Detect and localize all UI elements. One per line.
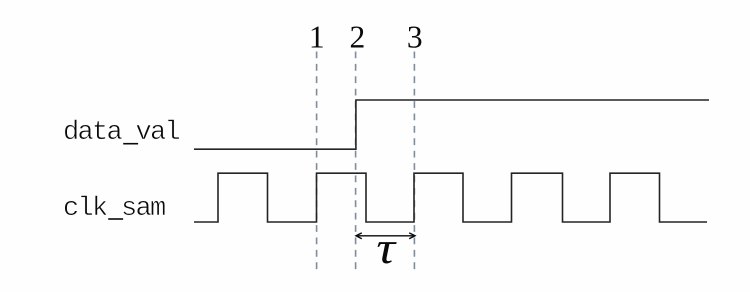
signal label data_val underscore [123, 143, 138, 145]
svg-text:τ: τ [376, 223, 396, 273]
wire clk_sam waveform [194, 173, 707, 222]
dashed marker line 3 [413, 52, 415, 272]
dashed marker line 1 [316, 52, 318, 272]
dashed marker line 2 [355, 52, 357, 272]
svg-text:1: 1 [309, 20, 325, 55]
svg-text:data val: data val [63, 118, 180, 148]
dimension arrow tau (double-headed) [356, 233, 415, 239]
wire data_val waveform [194, 100, 709, 149]
svg-text:2: 2 [350, 20, 366, 55]
svg-text:3: 3 [407, 20, 423, 55]
signal label clk_sam underscore [108, 218, 123, 220]
